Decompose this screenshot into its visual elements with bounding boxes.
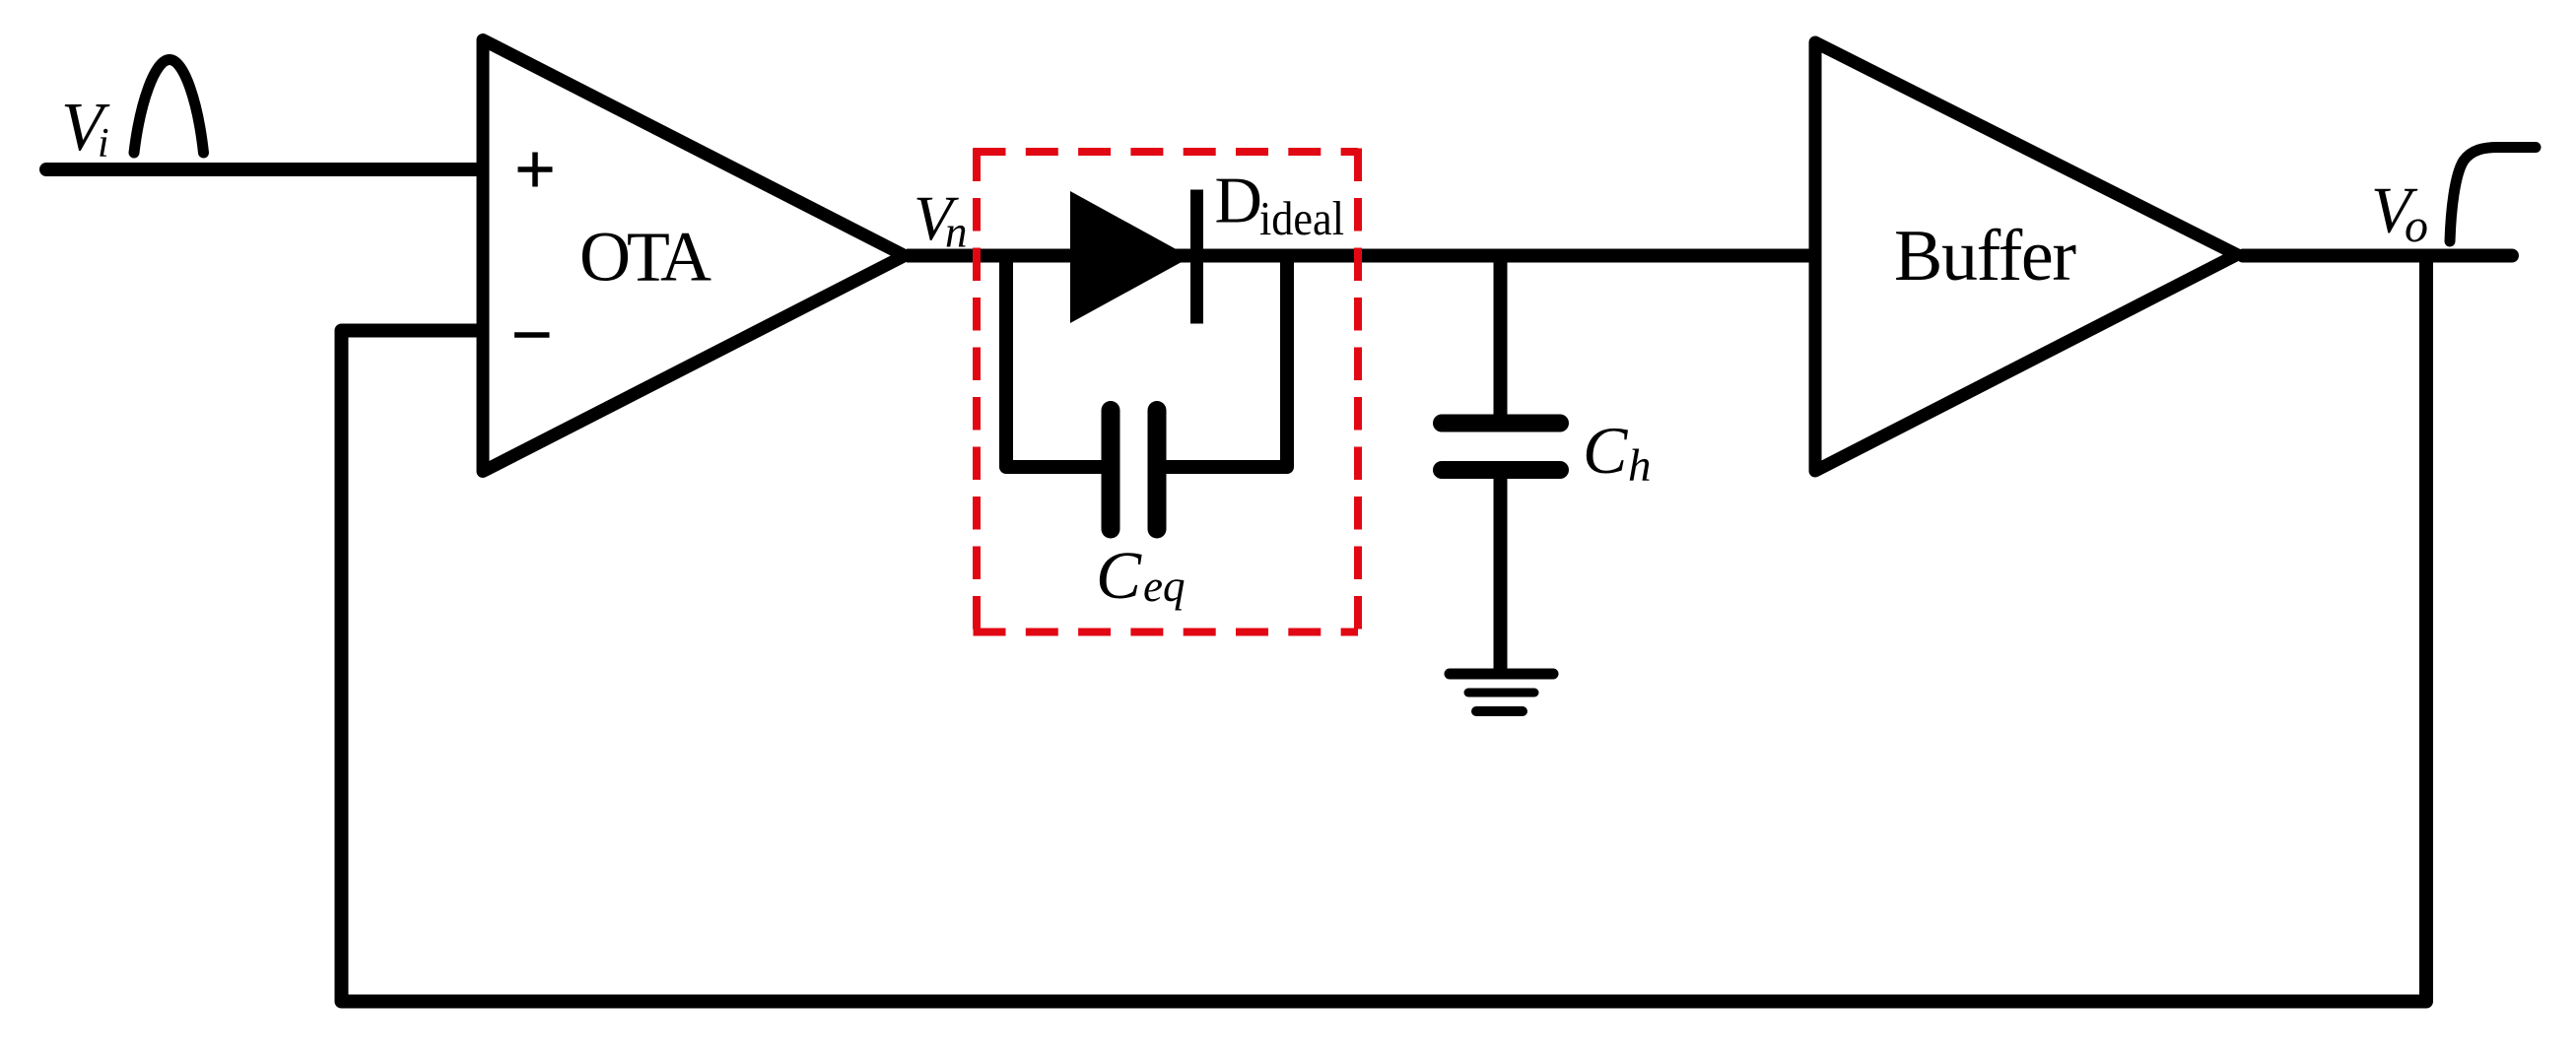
op-amp U1 plus input marker — [518, 153, 553, 187]
node Vi pulse symbol — [134, 60, 204, 154]
wire Ch to ground — [1494, 470, 1508, 674]
capacitor Ceq left plate — [1102, 411, 1120, 530]
svg-text:D: D — [1215, 165, 1262, 237]
dashed box around ideal diode model — [974, 149, 1359, 632]
wire Buffer output (node Vo) — [2243, 249, 2512, 263]
svg-text:OTA: OTA — [579, 218, 712, 297]
svg-text:Buffer: Buffer — [1894, 216, 2076, 297]
svg-text:eq: eq — [1143, 562, 1185, 611]
wire OTA output to Buffer input (node Vn) — [907, 249, 1822, 263]
wire Ch branch from main node — [1494, 249, 1508, 423]
wire feedback from Vo to OTA minus input — [342, 256, 2427, 1002]
svg-text:h: h — [1628, 440, 1652, 492]
wire Ceq parallel branch — [1006, 249, 1287, 467]
op-amp U1 OTA triangle — [483, 40, 905, 472]
wire Vi input to OTA + — [46, 163, 484, 176]
diode D_ideal cathode bar — [1190, 190, 1203, 324]
node Vo step-response symbol — [2450, 148, 2536, 242]
capacitor Ch top plate — [1442, 415, 1560, 432]
ground symbol — [1450, 674, 1553, 711]
svg-text:ideal: ideal — [1259, 191, 1344, 245]
svg-text:n: n — [945, 208, 968, 257]
svg-text:C: C — [1583, 413, 1628, 488]
diode D_ideal anode triangle — [1070, 191, 1190, 323]
capacitor Ceq right plate — [1148, 411, 1167, 530]
svg-text:C: C — [1096, 538, 1142, 613]
op-amp U2 Buffer triangle — [1815, 42, 2237, 471]
capacitor Ch bottom plate — [1442, 461, 1560, 479]
op-amp U1 minus input marker — [514, 332, 550, 338]
svg-text:o: o — [2405, 200, 2428, 252]
svg-text:i: i — [98, 121, 109, 166]
